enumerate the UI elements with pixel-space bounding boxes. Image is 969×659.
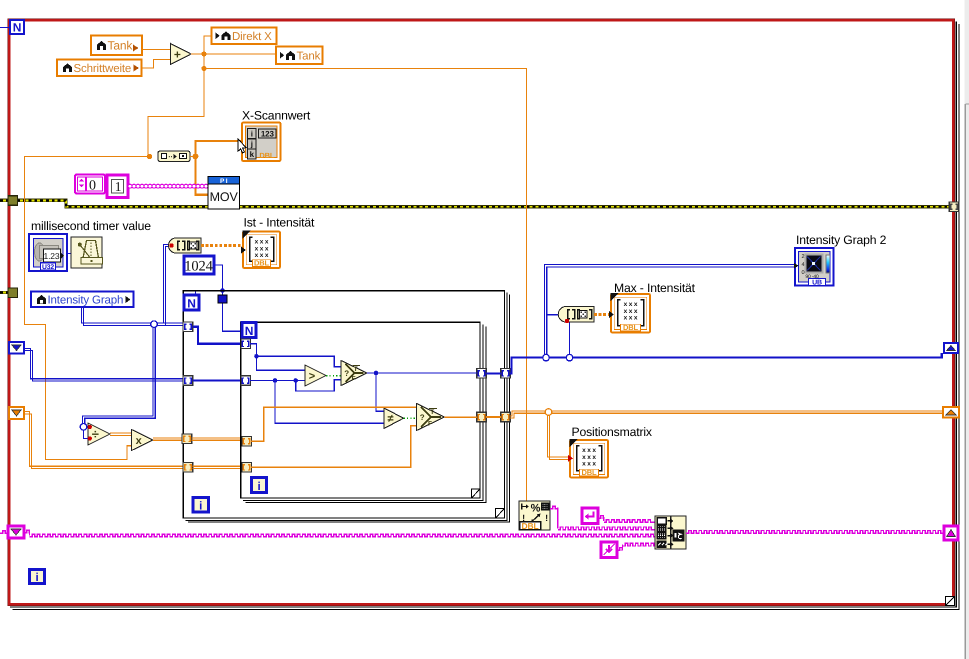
concatenate strings node bbox=[655, 516, 686, 549]
wire: orange shift register to loop (double) bbox=[24, 412, 184, 469]
for-loop 2 iteration terminal i2 bbox=[193, 498, 209, 513]
indicator Positionsmatrix bbox=[568, 439, 608, 478]
tunnel loop3 left orange upper bbox=[242, 436, 252, 446]
svg-text:x: x bbox=[136, 435, 143, 447]
wire: orange lower to select2 f bbox=[251, 426, 417, 467]
svg-text:P I: P I bbox=[220, 178, 228, 185]
local variable Tank (write) bbox=[276, 47, 323, 65]
coercion dot (Max node) bbox=[565, 319, 569, 323]
svg-text:?: ? bbox=[420, 413, 425, 422]
wire: scalar step wire down the left side to multiply bbox=[25, 157, 150, 460]
wire: branch dotA down to not-equal bbox=[275, 381, 384, 424]
svg-text:1024: 1024 bbox=[184, 258, 213, 274]
svg-text:T: T bbox=[354, 366, 358, 373]
tunnel loop3 left orange lower bbox=[242, 463, 252, 473]
svg-text:i: i bbox=[251, 130, 253, 139]
add function bbox=[171, 44, 192, 65]
wire: concatenated string to right shift register bbox=[686, 531, 944, 534]
node: junction dot C bbox=[147, 154, 152, 159]
wire: coerce out to junction D bbox=[190, 156, 196, 158]
wire: junction up to Direkt X local bbox=[204, 36, 212, 54]
wire: junction to Tank write local bbox=[204, 53, 276, 55]
wire: boolean dotted not-equal to select2 bbox=[404, 417, 417, 419]
shift register left blue bbox=[9, 342, 24, 354]
svg-text:X-Scannwert: X-Scannwert bbox=[242, 109, 311, 123]
for-loop 2 border bbox=[183, 291, 509, 522]
svg-text:Intensity Graph: Intensity Graph bbox=[48, 294, 124, 306]
wire: dashed orange to Max indicator bbox=[594, 313, 611, 316]
node: junction dot A bbox=[201, 51, 206, 56]
cluster control 0 bbox=[75, 175, 105, 194]
tunnel loop2 left orange upper bbox=[182, 434, 192, 444]
node: junction dot 1024 bbox=[220, 288, 225, 293]
svg-text:T: T bbox=[430, 409, 434, 416]
wire: orange position wire to select2 t bbox=[251, 407, 417, 441]
wire: 1024 to N terminals bbox=[196, 265, 243, 331]
wire: junction D up to X-Scannwert bbox=[196, 141, 243, 157]
wire: intensity graph 2D array (double line) bbox=[81, 307, 184, 325]
svg-text:millisecond timer value: millisecond timer value bbox=[31, 219, 151, 233]
svg-text:Max - Intensität: Max - Intensität bbox=[614, 281, 696, 295]
constant 1024 bbox=[184, 256, 214, 274]
wire: select1 output bbox=[367, 372, 477, 374]
svg-text:?: ? bbox=[344, 369, 349, 378]
for-loop 3 count terminal N3 bbox=[242, 323, 256, 338]
node: white circle junction 3 bbox=[545, 409, 552, 416]
cluster constant 1 bbox=[107, 175, 128, 198]
wire: formatted string to concatenate bbox=[550, 506, 558, 509]
wire: 2D branch up to Intensity Graph 2 (double) bbox=[544, 265, 795, 358]
wire: dashed orange to Ist indicator bbox=[201, 244, 243, 247]
wire: branch dotB to select1 f input bbox=[296, 380, 341, 391]
svg-text:÷: ÷ bbox=[92, 427, 99, 442]
select function 2 bbox=[417, 404, 445, 431]
for-loop 2 count terminal N2 bbox=[184, 295, 199, 310]
local variable Intensity Graph (read) bbox=[31, 292, 134, 308]
svg-text:Schrittweite: Schrittweite bbox=[74, 63, 132, 75]
multiply function bbox=[132, 430, 154, 451]
wire: long X value wire to string format bbox=[204, 69, 527, 502]
control millisecond timer value (U32) bbox=[29, 234, 67, 271]
tunnel loop3 right blue bbox=[477, 369, 487, 379]
tunnel loop2 left orange lower bbox=[183, 463, 193, 473]
wire: junction B down-left to coerce node bbox=[148, 69, 204, 157]
wire: boolean dotted greater to select1 bbox=[326, 375, 341, 377]
wire: 2D array into index node (double) bbox=[163, 244, 170, 325]
index array node (Ist) bbox=[169, 238, 201, 253]
for-loop count terminal N1 bbox=[10, 20, 24, 35]
svg-text:DBL: DBL bbox=[582, 468, 598, 477]
wire: junction D down to MOV bbox=[196, 157, 209, 195]
error tunnel right border bbox=[949, 202, 959, 212]
wire: loop count into N1 bbox=[0, 27, 10, 29]
wire: lower array element wire bbox=[250, 380, 305, 382]
svg-text:>: > bbox=[309, 371, 315, 383]
wire: branch circle2 up to max node bbox=[569, 322, 571, 358]
svg-text:Direkt X: Direkt X bbox=[232, 31, 272, 43]
tunnel loop2 right blue bbox=[501, 369, 511, 379]
tunnel loop3 right orange bbox=[477, 412, 487, 422]
svg-text:k: k bbox=[250, 150, 255, 159]
local variable Direkt X (write) bbox=[212, 28, 277, 45]
wire: Schrittweite local to add bbox=[142, 60, 171, 69]
tunnel loop2 right orange bbox=[501, 412, 511, 422]
for-loop 3 iteration terminal i3 bbox=[252, 478, 267, 493]
error wire (dashed yellow/black) bbox=[0, 200, 950, 292]
local variable Tank (read) bbox=[91, 36, 142, 56]
wire: add output to junction bbox=[191, 53, 204, 55]
svg-text:0: 0 bbox=[89, 179, 96, 194]
node: junction dot H bbox=[374, 371, 379, 376]
wire: select2 output to tunnel bbox=[445, 416, 478, 418]
for-loop 3 border bbox=[241, 322, 486, 502]
wire: orange lower tunnel to tunnel (double) bbox=[193, 466, 243, 468]
indicator X-Scannwert (array with index display) bbox=[242, 123, 281, 162]
wire: orange branch down to Positionsmatrix (double) bbox=[547, 412, 570, 459]
svg-text:4: 4 bbox=[802, 262, 805, 268]
shift register right magenta bbox=[944, 526, 958, 540]
wire: blue lower tunnel to tunnel bbox=[193, 379, 243, 381]
wire: orange positions to right shift register (double) bbox=[510, 411, 943, 418]
svg-text:123: 123 bbox=[261, 129, 275, 138]
wire: 2D blue tunnel to inner loop (thick) bbox=[193, 327, 243, 344]
wire: U32 to tick count bbox=[67, 253, 71, 255]
node: junction dot F bbox=[273, 378, 278, 383]
svg-text:F: F bbox=[352, 376, 356, 383]
divide function bbox=[88, 423, 110, 445]
svg-text:DBL: DBL bbox=[623, 323, 639, 332]
wire: orange between loop tunnels bbox=[486, 416, 501, 418]
select function 1 bbox=[341, 361, 367, 386]
svg-text:N: N bbox=[187, 296, 196, 310]
tunnel loop2 left blue upper bbox=[183, 322, 193, 332]
wire: EOL to concatenate bbox=[598, 516, 604, 519]
svg-text:DBL: DBL bbox=[259, 151, 275, 160]
shift register right orange bbox=[943, 407, 959, 418]
node: junction dot D bbox=[193, 154, 199, 160]
svg-text:U32: U32 bbox=[42, 264, 54, 271]
wire: tab to concatenate bbox=[617, 548, 623, 551]
svg-text:1.23: 1.23 bbox=[44, 251, 60, 261]
in range and coerce node bbox=[158, 151, 190, 162]
coercion dots at divide inputs bbox=[88, 425, 92, 429]
wire: cluster wire to MOV bbox=[128, 184, 132, 188]
svg-text:x x x: x x x bbox=[582, 461, 596, 468]
node: white circle junction 1 bbox=[543, 354, 550, 361]
wire: Tank local to add bbox=[142, 49, 171, 51]
window edge strip bbox=[965, 0, 969, 659]
svg-text:i: i bbox=[35, 572, 38, 584]
shift register left (error) lower bbox=[8, 288, 18, 298]
wire: orange upper tunnel to tunnel (double) bbox=[192, 438, 243, 440]
greater-than function bbox=[305, 365, 326, 386]
svg-text:Tank: Tank bbox=[297, 50, 321, 62]
svg-text:j: j bbox=[250, 140, 253, 149]
svg-text:F: F bbox=[428, 421, 432, 428]
shift register left (error) upper bbox=[8, 196, 18, 206]
svg-text:2: 2 bbox=[802, 254, 805, 260]
svg-text:DBL: DBL bbox=[254, 259, 270, 268]
wire: junction down bbox=[203, 54, 205, 69]
node: junction dot G bbox=[293, 378, 298, 383]
number to fractional string node bbox=[519, 501, 550, 531]
wire: select1 branch down to not-equal top bbox=[376, 373, 384, 411]
svg-text:N: N bbox=[13, 21, 22, 35]
svg-text:UB: UB bbox=[812, 280, 822, 287]
svg-text:Intensity Graph 2: Intensity Graph 2 bbox=[796, 233, 887, 247]
MOV subVI node bbox=[208, 177, 240, 210]
svg-text:Tank: Tank bbox=[108, 38, 134, 52]
svg-text:1: 1 bbox=[115, 179, 122, 194]
indicator Max - Intensität bbox=[609, 293, 650, 333]
svg-text:+: + bbox=[174, 47, 181, 61]
indicator Ist - Intensität bbox=[241, 231, 280, 269]
svg-text:Positionsmatrix: Positionsmatrix bbox=[572, 425, 652, 439]
end of line constant bbox=[582, 508, 598, 524]
wire: branch to select1 t input bbox=[257, 356, 342, 366]
mouse cursor arrow bbox=[238, 139, 246, 153]
tab constant bbox=[601, 542, 617, 558]
tunnel: blue square (1024 into loop2) bbox=[218, 295, 227, 303]
svg-text:Ist - Intensität: Ist - Intensität bbox=[244, 216, 316, 230]
node: junction dot B bbox=[201, 66, 206, 71]
tunnel loop3 left blue lower bbox=[241, 376, 251, 386]
svg-text:i: i bbox=[199, 500, 202, 512]
svg-text:DBL: DBL bbox=[521, 521, 538, 531]
svg-text:≠: ≠ bbox=[387, 413, 393, 425]
not-equal function bbox=[384, 408, 404, 429]
node: white circle junction 2 bbox=[566, 354, 573, 361]
wire: divide to multiply (double orange) bbox=[110, 433, 132, 435]
wire: 2D branch down to divide (double) bbox=[82, 324, 155, 438]
node: wire junction (white circle) at divide bbox=[80, 424, 87, 431]
svg-text:N: N bbox=[245, 324, 254, 338]
indicator Intensity Graph 2 bbox=[794, 248, 834, 287]
node: junction dot E bbox=[254, 354, 259, 359]
shift register left magenta bbox=[8, 526, 24, 538]
tunnel loop3 left blue upper bbox=[241, 339, 251, 349]
wire: blue between loop tunnels bbox=[486, 372, 501, 374]
svg-text:MOV: MOV bbox=[210, 190, 239, 204]
shift register left orange bbox=[9, 407, 24, 419]
wire: multiply out to loop tunnel (double orange) bbox=[153, 438, 183, 440]
svg-text:x x x: x x x bbox=[624, 315, 638, 322]
local variable Schrittweite (read) bbox=[57, 60, 142, 77]
svg-text:0: 0 bbox=[802, 270, 805, 276]
svg-text:!: ! bbox=[545, 513, 548, 523]
svg-text:i: i bbox=[257, 481, 260, 493]
wire: long string wire to concatenate bbox=[24, 530, 30, 533]
svg-text:%: % bbox=[531, 503, 541, 515]
wire: branch to max index node bbox=[547, 314, 560, 316]
coercion dot (Ist index node) bbox=[169, 243, 173, 247]
wire: intensity result to right shift register bbox=[510, 353, 942, 373]
index array node (Max) bbox=[558, 307, 594, 323]
svg-text:··: ·· bbox=[168, 154, 172, 161]
wire: blue shift register to loop (double) bbox=[24, 348, 184, 381]
node: wire junction (white circle) on 2D wire bbox=[151, 321, 158, 328]
shift register right blue bbox=[944, 343, 958, 353]
iteration terminal i1 (main loop) bbox=[30, 570, 45, 584]
wire: string stub outside left bbox=[0, 531, 8, 534]
tunnel loop2 left blue lower bbox=[183, 376, 193, 386]
wire: array element to greater (top path) bbox=[250, 344, 305, 371]
tick count (ms) function bbox=[71, 237, 103, 268]
